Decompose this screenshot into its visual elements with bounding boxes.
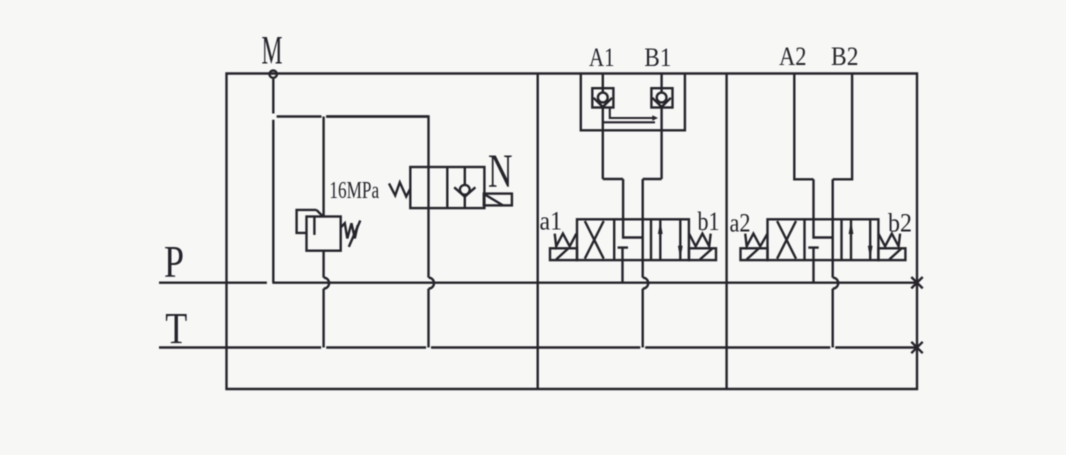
svg-text:16MPa: 16MPa <box>329 177 379 204</box>
svg-text:a2: a2 <box>730 209 751 238</box>
svg-text:b2: b2 <box>888 209 912 238</box>
svg-text:a1: a1 <box>540 207 563 236</box>
svg-text:T: T <box>165 303 187 353</box>
svg-text:N: N <box>488 145 513 198</box>
svg-text:M: M <box>262 28 283 73</box>
svg-text:P: P <box>164 236 184 287</box>
svg-text:B1: B1 <box>644 43 671 72</box>
svg-text:B2: B2 <box>831 42 859 71</box>
svg-text:A2: A2 <box>779 42 807 71</box>
svg-text:b1: b1 <box>698 207 720 236</box>
svg-text:A1: A1 <box>589 43 615 72</box>
